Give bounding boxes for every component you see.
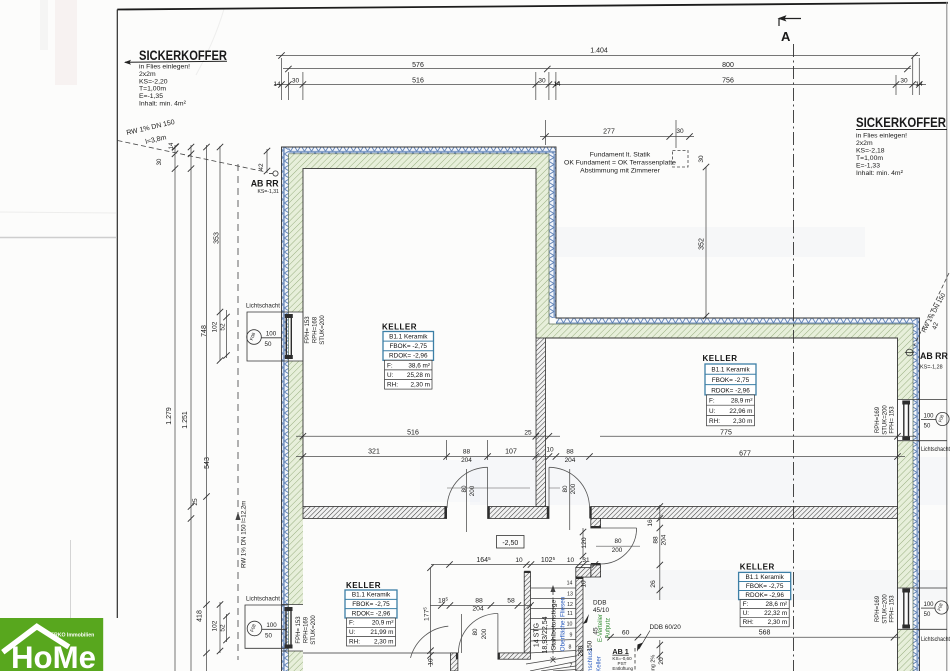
svg-text:10: 10 bbox=[581, 580, 588, 588]
svg-text:F:: F: bbox=[743, 601, 749, 608]
svg-text:Inhalt: min. 4m²: Inhalt: min. 4m² bbox=[139, 101, 187, 108]
svg-text:ung 2%: ung 2% bbox=[651, 655, 657, 671]
svg-text:20,9 m²: 20,9 m² bbox=[372, 620, 394, 627]
svg-text:800: 800 bbox=[722, 62, 734, 69]
svg-text:AB 1: AB 1 bbox=[612, 647, 628, 656]
svg-text:B1.1 Keramik: B1.1 Keramik bbox=[711, 367, 750, 374]
svg-text:200: 200 bbox=[570, 483, 577, 494]
svg-text:FBOK= -2,75: FBOK= -2,75 bbox=[352, 601, 390, 608]
svg-text:100: 100 bbox=[266, 622, 277, 629]
svg-text:25: 25 bbox=[192, 498, 199, 506]
svg-text:42: 42 bbox=[258, 163, 265, 171]
svg-text:DDB: DDB bbox=[593, 600, 607, 607]
svg-text:Inhalt: min. 4m²: Inhalt: min. 4m² bbox=[856, 170, 904, 177]
svg-text:E=-1,35: E=-1,35 bbox=[139, 93, 163, 100]
svg-text:200: 200 bbox=[469, 485, 476, 496]
svg-text:748: 748 bbox=[201, 325, 208, 337]
svg-text:204: 204 bbox=[461, 457, 472, 464]
svg-text:25: 25 bbox=[524, 430, 532, 437]
svg-text:8: 8 bbox=[569, 645, 572, 651]
svg-text:26: 26 bbox=[650, 580, 657, 588]
svg-text:280: 280 bbox=[578, 645, 585, 656]
svg-text:Lichtschacht: Lichtschacht bbox=[921, 636, 950, 643]
svg-text:RDOK= -2,96: RDOK= -2,96 bbox=[352, 610, 391, 617]
svg-text:576: 576 bbox=[412, 62, 424, 69]
svg-text:KS=-2,18: KS=-2,18 bbox=[856, 148, 885, 155]
svg-text:STUK=200: STUK=200 bbox=[882, 594, 888, 624]
svg-text:in Flies einlegen!: in Flies einlegen! bbox=[856, 133, 907, 140]
svg-text:OK Fundament = OK Terrassenpla: OK Fundament = OK Terrassenplatte bbox=[564, 160, 676, 167]
svg-text:in Flies einlegen!: in Flies einlegen! bbox=[139, 64, 190, 71]
svg-text:KELLER: KELLER bbox=[346, 581, 381, 590]
svg-text:204: 204 bbox=[472, 606, 484, 613]
svg-text:30: 30 bbox=[157, 158, 163, 165]
svg-text:88: 88 bbox=[566, 449, 574, 456]
svg-text:16: 16 bbox=[647, 519, 654, 527]
svg-text:60: 60 bbox=[622, 630, 630, 637]
svg-text:DDB 60/20: DDB 60/20 bbox=[650, 624, 682, 631]
svg-text:50: 50 bbox=[265, 341, 272, 348]
svg-text:88: 88 bbox=[463, 449, 471, 456]
svg-text:2,30 m: 2,30 m bbox=[410, 382, 430, 389]
svg-text:277: 277 bbox=[603, 129, 615, 136]
svg-text:30: 30 bbox=[676, 128, 684, 135]
svg-text:RH:: RH: bbox=[743, 619, 754, 626]
svg-text:B1.1 Keramik: B1.1 Keramik bbox=[389, 334, 428, 341]
svg-text:Oberfläche: Fliesen: Oberfläche: Fliesen bbox=[560, 596, 567, 651]
svg-text:21,99 m: 21,99 m bbox=[370, 629, 393, 636]
svg-text:100: 100 bbox=[923, 602, 934, 608]
svg-text:U:: U: bbox=[349, 629, 356, 636]
svg-text:102: 102 bbox=[212, 321, 219, 332]
svg-text:677: 677 bbox=[739, 451, 751, 458]
svg-text:2,30 m: 2,30 m bbox=[374, 638, 394, 645]
svg-text:30: 30 bbox=[900, 78, 908, 85]
svg-text:756: 756 bbox=[722, 78, 734, 85]
svg-text:RDOK= -2,96: RDOK= -2,96 bbox=[389, 353, 428, 360]
svg-text:28,9 m²: 28,9 m² bbox=[731, 398, 753, 405]
svg-text:775: 775 bbox=[720, 430, 732, 437]
svg-text:10: 10 bbox=[546, 447, 554, 454]
svg-text:RPH=169: RPH=169 bbox=[875, 406, 881, 433]
svg-text:1.251: 1.251 bbox=[182, 411, 189, 429]
svg-text:FBOK= -2,75: FBOK= -2,75 bbox=[746, 583, 784, 590]
svg-text:STUK=200: STUK=200 bbox=[882, 405, 888, 435]
svg-text:80: 80 bbox=[461, 485, 468, 493]
svg-text:52: 52 bbox=[220, 624, 227, 632]
svg-text:T=1,00m: T=1,00m bbox=[139, 86, 166, 93]
svg-text:2x2m: 2x2m bbox=[856, 140, 873, 147]
svg-text:516: 516 bbox=[412, 78, 424, 85]
svg-text:ERKO Immobilien: ERKO Immobilien bbox=[51, 633, 95, 639]
svg-text:U:: U: bbox=[387, 372, 394, 379]
svg-text:Lichtschacht: Lichtschacht bbox=[246, 596, 280, 603]
svg-text:7: 7 bbox=[570, 663, 573, 669]
svg-text:45: 45 bbox=[593, 627, 600, 635]
svg-text:107: 107 bbox=[505, 449, 517, 456]
svg-text:KS=-1,31: KS=-1,31 bbox=[258, 189, 280, 195]
svg-text:52: 52 bbox=[220, 323, 227, 331]
svg-text:RDOK= -2,96: RDOK= -2,96 bbox=[745, 592, 784, 599]
svg-text:A: A bbox=[781, 29, 791, 44]
svg-text:18,93/22,54: 18,93/22,54 bbox=[542, 616, 549, 653]
svg-text:2,30 m: 2,30 m bbox=[733, 418, 753, 425]
svg-text:Entlüftung: Entlüftung bbox=[612, 666, 633, 671]
svg-text:FPH= 153: FPH= 153 bbox=[890, 595, 896, 623]
svg-text:352: 352 bbox=[699, 238, 706, 250]
svg-text:14: 14 bbox=[273, 81, 281, 88]
svg-text:Stahlbetonstiege: Stahlbetonstiege bbox=[551, 599, 558, 650]
svg-text:80: 80 bbox=[562, 485, 569, 493]
svg-text:FPH= 153: FPH= 153 bbox=[305, 316, 311, 344]
svg-text:22,32 m: 22,32 m bbox=[764, 610, 787, 617]
svg-text:321: 321 bbox=[368, 449, 380, 456]
svg-text:88: 88 bbox=[475, 598, 483, 605]
svg-text:568: 568 bbox=[759, 630, 771, 637]
svg-text:2x2m: 2x2m bbox=[139, 71, 156, 78]
svg-text:U:: U: bbox=[743, 610, 750, 617]
svg-text:31: 31 bbox=[582, 557, 590, 564]
svg-text:KELLER: KELLER bbox=[703, 354, 738, 363]
svg-text:45/10: 45/10 bbox=[593, 607, 609, 614]
svg-text:RH:: RH: bbox=[709, 418, 720, 425]
svg-text:418: 418 bbox=[197, 610, 204, 622]
svg-text:13: 13 bbox=[567, 592, 573, 598]
svg-text:22,96 m: 22,96 m bbox=[729, 408, 752, 415]
svg-text:12: 12 bbox=[567, 602, 573, 608]
svg-text:HoMe: HoMe bbox=[11, 639, 96, 671]
svg-text:Keller: Keller bbox=[596, 656, 603, 671]
svg-text:KELLER: KELLER bbox=[382, 323, 417, 332]
svg-text:50: 50 bbox=[265, 632, 272, 639]
svg-text:14: 14 bbox=[567, 581, 573, 587]
svg-text:FPH= 153: FPH= 153 bbox=[296, 616, 302, 644]
svg-text:150: 150 bbox=[587, 640, 594, 651]
svg-text:14: 14 bbox=[915, 81, 923, 88]
svg-text:20: 20 bbox=[658, 657, 665, 665]
svg-text:1.279: 1.279 bbox=[166, 407, 173, 425]
svg-text:STUK=200: STUK=200 bbox=[320, 315, 326, 345]
svg-text:14: 14 bbox=[169, 142, 175, 149]
svg-text:F:: F: bbox=[709, 398, 715, 405]
svg-text:11: 11 bbox=[567, 611, 572, 617]
svg-text:80: 80 bbox=[614, 538, 622, 545]
svg-text:10: 10 bbox=[567, 622, 573, 628]
svg-text:RPH=169: RPH=169 bbox=[304, 616, 310, 643]
svg-text:14 STG: 14 STG bbox=[534, 623, 541, 647]
svg-text:200: 200 bbox=[612, 547, 623, 554]
svg-text:1.404: 1.404 bbox=[590, 48, 608, 55]
svg-text:100: 100 bbox=[266, 331, 277, 338]
svg-text:E=-1,33: E=-1,33 bbox=[856, 163, 880, 170]
svg-text:28,6 m²: 28,6 m² bbox=[766, 601, 788, 608]
svg-text:AB RR: AB RR bbox=[251, 179, 280, 189]
svg-text:Abstimmung mit Zimmerer: Abstimmung mit Zimmerer bbox=[580, 168, 660, 175]
svg-text:25,28 m: 25,28 m bbox=[407, 372, 430, 379]
svg-text:120: 120 bbox=[581, 537, 588, 549]
svg-text:353: 353 bbox=[214, 232, 221, 244]
svg-text:200: 200 bbox=[481, 628, 488, 639]
svg-text:9: 9 bbox=[570, 633, 573, 639]
svg-text:516: 516 bbox=[407, 430, 419, 437]
svg-text:FBOK= -2,75: FBOK= -2,75 bbox=[390, 343, 428, 350]
svg-text:-2,50: -2,50 bbox=[502, 540, 518, 547]
svg-text:RW 1% DN 150 l=12,2m: RW 1% DN 150 l=12,2m bbox=[241, 501, 248, 568]
svg-text:FBOK= -2,75: FBOK= -2,75 bbox=[712, 377, 750, 384]
svg-text:AB RR: AB RR bbox=[920, 351, 949, 361]
svg-text:543: 543 bbox=[204, 457, 211, 469]
svg-text:KS=-1,28: KS=-1,28 bbox=[920, 365, 943, 371]
svg-text:Lichtschacht: Lichtschacht bbox=[246, 303, 280, 310]
svg-text:30: 30 bbox=[538, 78, 546, 85]
svg-text:KELLER: KELLER bbox=[740, 563, 775, 572]
svg-text:RPH=168: RPH=168 bbox=[313, 316, 319, 343]
svg-text:38,6 m²: 38,6 m² bbox=[408, 362, 430, 369]
svg-text:F:: F: bbox=[387, 362, 393, 369]
svg-text:10: 10 bbox=[567, 557, 575, 564]
svg-text:B1.1 Keramik: B1.1 Keramik bbox=[745, 574, 784, 581]
svg-text:88: 88 bbox=[653, 536, 660, 544]
svg-text:30: 30 bbox=[698, 155, 705, 163]
svg-text:30: 30 bbox=[292, 78, 300, 85]
svg-text:10: 10 bbox=[515, 557, 523, 564]
svg-text:RPH=169: RPH=169 bbox=[875, 595, 881, 622]
svg-text:RH:: RH: bbox=[349, 638, 360, 645]
svg-text:Lichtschacht: Lichtschacht bbox=[921, 446, 950, 453]
svg-text:50: 50 bbox=[924, 424, 931, 430]
svg-text:80: 80 bbox=[472, 628, 479, 636]
svg-text:SICKERKOFFER: SICKERKOFFER bbox=[856, 115, 946, 130]
svg-text:SICKERKOFFER: SICKERKOFFER bbox=[139, 48, 227, 63]
svg-text:10: 10 bbox=[428, 658, 435, 666]
svg-text:U:: U: bbox=[709, 408, 716, 415]
svg-text:100: 100 bbox=[923, 414, 934, 420]
svg-text:KS=-2,20: KS=-2,20 bbox=[139, 78, 168, 85]
svg-text:STUK=200: STUK=200 bbox=[311, 615, 317, 645]
svg-text:102: 102 bbox=[212, 620, 219, 631]
svg-text:204: 204 bbox=[661, 534, 668, 545]
svg-text:50: 50 bbox=[924, 612, 931, 618]
svg-text:T=1,00m: T=1,00m bbox=[856, 155, 883, 162]
svg-text:Aufputz: Aufputz bbox=[606, 618, 612, 638]
svg-text:14: 14 bbox=[553, 81, 561, 88]
svg-text:2,30 m: 2,30 m bbox=[768, 619, 788, 626]
svg-text:RDOK= -2,96: RDOK= -2,96 bbox=[711, 387, 750, 394]
svg-text:204: 204 bbox=[565, 457, 576, 464]
svg-text:58: 58 bbox=[507, 598, 515, 605]
svg-text:B1.1 Keramik: B1.1 Keramik bbox=[352, 592, 391, 599]
svg-text:FPH= 153: FPH= 153 bbox=[890, 406, 896, 434]
svg-text:F:: F: bbox=[349, 620, 355, 627]
svg-text:Fundament lt. Statik: Fundament lt. Statik bbox=[590, 152, 651, 159]
svg-text:RH:: RH: bbox=[387, 382, 398, 389]
